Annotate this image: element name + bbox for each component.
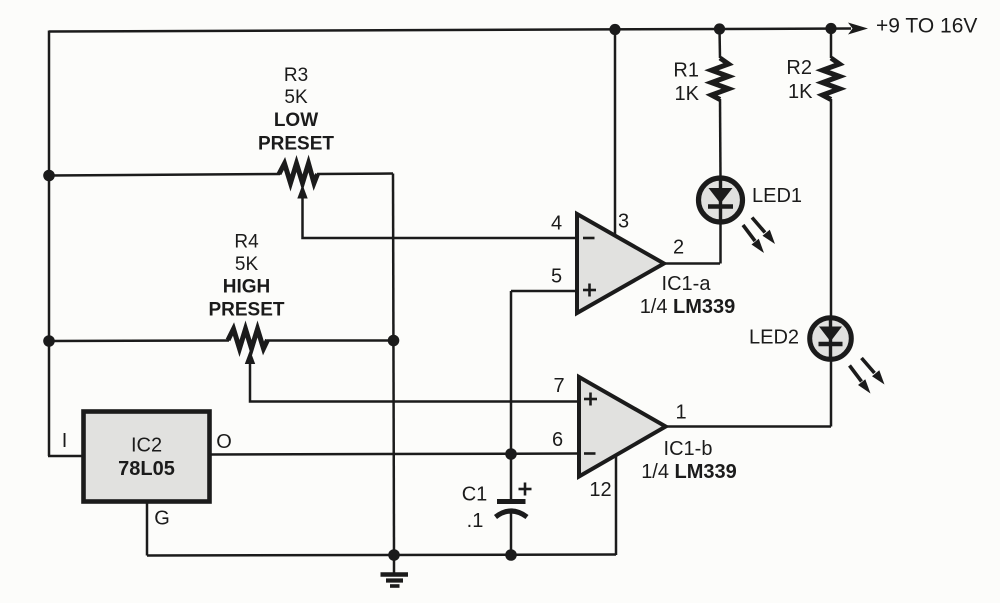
node: ground symbol junction <box>388 549 400 561</box>
svg-text:+9 TO 16V: +9 TO 16V <box>876 15 977 38</box>
svg-text:R4: R4 <box>234 232 259 253</box>
wire: IC2 output to IC1-b pin 6 <box>210 454 579 455</box>
resistor R1 (zigzag) <box>712 29 729 100</box>
wire: IC2 input lead <box>48 455 84 458</box>
svg-text:IC1-a: IC1-a <box>662 273 712 295</box>
svg-text:4: 4 <box>551 213 562 235</box>
label R2 1K <box>786 57 813 103</box>
resistor R2 (zigzag) <box>823 29 840 100</box>
wire: ground bus vertical <box>393 174 394 556</box>
label R3 5K LOW PRESET <box>258 65 334 155</box>
LED2 light arrows <box>850 358 885 394</box>
wire: R3 wiper to IC1-a pin 4 <box>303 194 578 238</box>
label IC2 78L05 <box>118 435 175 481</box>
node: left rail / R3 junction <box>43 170 55 182</box>
LED1 light arrows <box>743 218 775 254</box>
op-amp IC1-b (triangle, + and - inputs) <box>579 377 666 477</box>
wire: R2 to LED2 top <box>830 99 833 318</box>
wire: IC1-b output pin 1 to LED2 <box>664 425 831 428</box>
wire: R3 left lead <box>49 174 280 176</box>
wire: LED1 to IC1-a output <box>719 220 722 264</box>
svg-text:3: 3 <box>618 211 629 233</box>
svg-text:1/4 LM339: 1/4 LM339 <box>641 461 737 483</box>
node: top rail / R1 junction <box>714 23 725 34</box>
node: R4 right / ground bus junction <box>388 335 400 347</box>
wire: reference bus vertical <box>510 291 513 500</box>
svg-text:G: G <box>154 508 170 530</box>
svg-text:PRESET: PRESET <box>208 300 284 321</box>
node: left rail / R4 junction <box>43 335 55 347</box>
wire: left supply rail vertical <box>48 31 51 457</box>
label R4 5K HIGH PRESET <box>208 232 284 321</box>
wire: +V top power rail <box>49 29 851 32</box>
svg-text:IC2: IC2 <box>131 435 162 457</box>
capacitor C1 (polarized: straight plate + curved plate, + sign) <box>496 483 532 556</box>
svg-text:LOW: LOW <box>274 110 318 131</box>
svg-text:5K: 5K <box>235 254 259 275</box>
wire: R4 right lead <box>267 339 394 342</box>
LED LED1 (circle, diode triangle, cathode bar) <box>699 178 743 222</box>
svg-text:12: 12 <box>589 479 611 501</box>
node: top rail / IC1-a pin3 junction <box>609 24 620 35</box>
svg-text:1/4 LM339: 1/4 LM339 <box>640 296 736 318</box>
svg-text:LED2: LED2 <box>749 327 799 349</box>
svg-text:LED1: LED1 <box>752 185 802 207</box>
svg-text:5: 5 <box>551 266 562 288</box>
svg-text:7: 7 <box>553 375 564 397</box>
wire: IC2 ground lead <box>146 501 149 556</box>
svg-text:2: 2 <box>673 237 684 259</box>
wire: R4 left lead <box>49 339 229 342</box>
svg-text:PRESET: PRESET <box>258 134 334 155</box>
wire: IC1-a pin 3 to +V rail <box>614 30 617 237</box>
potentiometer R4 (zigzag + wiper arrow) <box>228 329 268 364</box>
svg-text:O: O <box>216 431 232 453</box>
svg-text:I: I <box>62 430 68 452</box>
wire: IC1-a pin 5 lead <box>511 290 577 293</box>
svg-text:R1: R1 <box>673 60 699 82</box>
svg-text:1K: 1K <box>675 83 700 105</box>
label R1 1K <box>673 60 699 106</box>
svg-text:HIGH: HIGH <box>223 277 271 298</box>
wire: R4 wiper to IC1-b pin 7 <box>250 360 579 402</box>
potentiometer R3 (zigzag + wiper arrow) <box>279 164 318 199</box>
node: C1 bottom junction <box>505 549 517 561</box>
op-amp IC1-a (triangle, - and + inputs) <box>577 214 664 313</box>
wire: IC1-b pin 12 to ground rail <box>615 454 618 555</box>
LED LED2 (circle, diode triangle, cathode bar) <box>810 318 852 360</box>
wire: IC1-a output pin 2 to LED1 <box>663 262 720 265</box>
svg-text:C1: C1 <box>462 484 488 506</box>
wire: LED2 to IC1-b output <box>830 358 833 427</box>
svg-text:1: 1 <box>675 402 686 424</box>
wire: bottom ground rail <box>147 555 616 556</box>
ground symbol <box>381 555 409 586</box>
node: top rail / R2 junction <box>825 23 836 34</box>
wire: R3 right lead <box>317 172 393 175</box>
svg-text:6: 6 <box>552 429 563 451</box>
svg-text:IC1-b: IC1-b <box>664 438 713 460</box>
svg-text:R3: R3 <box>284 65 308 86</box>
node: reference bus / pin 6 junction <box>505 448 517 460</box>
regulator IC2 78L05 (box) <box>84 412 210 502</box>
wire: R1 to LED1 top <box>719 99 722 180</box>
power arrow head +9 TO 16V <box>848 23 868 35</box>
label C1 .1 <box>462 484 488 533</box>
svg-text:78L05: 78L05 <box>118 458 175 480</box>
svg-text:5K: 5K <box>284 87 308 108</box>
svg-text:R2: R2 <box>786 57 812 79</box>
svg-text:1K: 1K <box>788 81 813 103</box>
svg-text:.1: .1 <box>467 510 484 532</box>
